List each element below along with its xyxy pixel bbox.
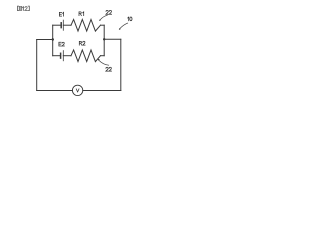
- wire: top branch middle: [63, 24, 71, 26]
- figure caption kanji zu: [19, 6, 22, 10]
- battery E1 long plate: [62, 20, 64, 30]
- wire: left mid lead: [37, 39, 53, 41]
- wire: top branch right lead: [101, 24, 105, 26]
- figure caption digits 12: [23, 7, 28, 11]
- figure caption bracket right: [28, 6, 29, 11]
- voltmeter V: [72, 85, 82, 95]
- label E2: [59, 42, 65, 46]
- wire: bottom branch middle: [63, 55, 71, 57]
- label 22 bottom with leader arrow: [98, 59, 112, 71]
- wire: top branch left lead: [53, 24, 61, 26]
- wire: bottom left segment: [37, 90, 73, 92]
- node right junction: [103, 38, 105, 40]
- label 22 top with leader arrow: [99, 10, 112, 21]
- battery E2 long plate: [62, 51, 64, 61]
- wire: bottom branch right lead: [101, 55, 105, 57]
- wire: right outer vertical: [120, 39, 122, 90]
- resistor R1: [71, 19, 101, 31]
- label R2: [79, 41, 85, 45]
- wire: parallel right vertical: [103, 25, 105, 56]
- label 10 with leader arrow: [119, 17, 132, 30]
- battery E2 short plate: [60, 53, 62, 58]
- node left junction: [52, 38, 54, 40]
- wire: left outer vertical: [36, 40, 38, 91]
- label E1: [59, 12, 63, 16]
- resistor R2: [71, 50, 101, 62]
- wire: parallel left vertical: [52, 25, 54, 56]
- label R1: [79, 12, 84, 16]
- wire: bottom branch left lead: [53, 55, 61, 57]
- wire: right mid lead: [104, 38, 121, 40]
- figure caption bracket left: [18, 6, 19, 11]
- battery E1 short plate: [60, 23, 62, 28]
- wire: bottom right segment: [83, 90, 121, 92]
